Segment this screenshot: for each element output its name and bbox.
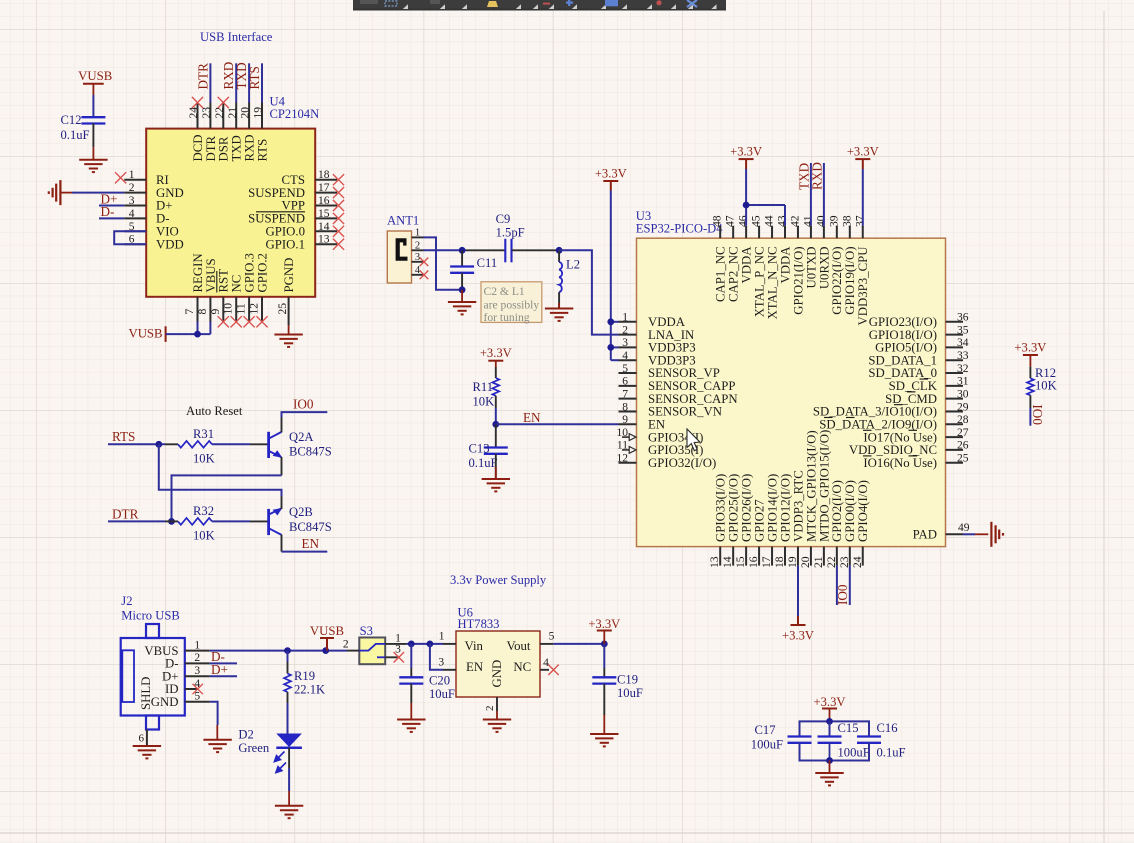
U3 top pin 42 GPIO21(I/O): [788, 215, 805, 315]
LED D2 Green: [238, 727, 302, 772]
svg-text:U0TXD: U0TXD: [804, 247, 818, 289]
junction bank bottom: [826, 757, 833, 764]
svg-text:+3.3V: +3.3V: [730, 145, 762, 159]
svg-text:GPIO14(I/O): GPIO14(I/O): [765, 474, 779, 542]
power port +3.3V at capacitor bank: [814, 695, 846, 721]
J2 pin 1 VBUS: [144, 639, 209, 657]
U3 bottom pin 20 MTCK_GPIO13(I/O): [799, 430, 818, 568]
svg-text:34: 34: [957, 337, 969, 349]
power port +3.3V above R11: [480, 346, 512, 367]
svg-text:ANT1: ANT1: [387, 214, 419, 228]
IC U3 ESP32-PICO-D4 body: [636, 209, 946, 546]
no-ERC mark U4 pin 14: [333, 226, 344, 237]
junction RTS: [155, 441, 162, 448]
U4 top pin 23 DTR: [200, 103, 218, 162]
svg-text:0.1uF: 0.1uF: [469, 456, 498, 470]
ground below J2 GND: [203, 740, 231, 752]
svg-text:C16: C16: [877, 721, 898, 735]
svg-text:CAP2_NC: CAP2_NC: [727, 247, 741, 302]
no-ERC mark U4 pin 16: [333, 200, 344, 211]
no-ERC mark U4 pin 24: [192, 97, 203, 108]
svg-text:NC: NC: [230, 275, 244, 293]
junction VUSB port: [322, 647, 329, 654]
ground below C12: [79, 160, 107, 172]
ground below C20: [397, 720, 425, 732]
svg-text:10uF: 10uF: [617, 686, 643, 700]
svg-text:3: 3: [438, 657, 444, 669]
U4 top pin 19 RTS: [252, 103, 270, 162]
svg-text:C13: C13: [469, 441, 490, 455]
U4 left pin 6 VDD: [124, 234, 183, 252]
no-ERC mark S3 pin 3: [385, 652, 404, 662]
wire junction to ground: [461, 290, 463, 302]
ground below capacitor bank: [815, 773, 843, 785]
svg-text:EN: EN: [523, 410, 541, 425]
svg-text:Auto Reset: Auto Reset: [186, 404, 243, 418]
svg-text:C12: C12: [61, 113, 82, 127]
wire S3 to U6 Vin: [407, 643, 443, 645]
transistor Q2B BC847S: [269, 496, 332, 552]
wire J2 GND pin to ground: [210, 702, 218, 725]
ground at U4 pin 2 (signal ground): [49, 180, 72, 205]
wire at U3 pin 22: [836, 566, 838, 605]
svg-text:U0RXD: U0RXD: [817, 247, 831, 290]
U3 bottom pin 16 GPIO27: [747, 499, 766, 568]
U3 bottom pin 24 GPIO4(I/O): [851, 480, 870, 568]
svg-text:47: 47: [724, 215, 737, 227]
wire C13 to ground: [495, 454, 497, 479]
U6 pin 4 NC: [540, 657, 559, 675]
svg-text:S3: S3: [360, 624, 373, 638]
svg-text:10uF: 10uF: [429, 687, 455, 701]
power port +3.3V above R12: [1014, 341, 1046, 367]
svg-text:2: 2: [343, 638, 349, 650]
svg-text:10: 10: [222, 303, 235, 315]
no-ERC mark U4 pin 22: [218, 97, 229, 108]
note box C2 & L1 are possibly for tuning: [481, 282, 542, 324]
ground below C19: [590, 734, 618, 746]
U3 right pin 27 IO17(No Use): [863, 427, 968, 444]
svg-text:VDDA: VDDA: [778, 246, 792, 284]
wire ANT1 pin 2 RF line: [424, 249, 467, 251]
svg-text:3: 3: [622, 337, 628, 349]
U3 top pin 37 VDD3P3_CPU: [853, 215, 870, 325]
U3 right pin 34 GPIO5(I/O): [875, 337, 969, 354]
svg-text:EN: EN: [302, 536, 320, 551]
svg-text:C2 & L1: C2 & L1: [484, 285, 525, 298]
U4 right pin 14 GPIO.0: [266, 221, 337, 239]
svg-text:0.1uF: 0.1uF: [877, 745, 906, 759]
svg-text:10K: 10K: [193, 452, 215, 466]
U3 top pin 45 XTAL_P_NC: [750, 215, 767, 317]
junction EN branch: [427, 641, 434, 648]
wire net D- to U4 pin 4: [99, 217, 124, 219]
svg-text:3: 3: [129, 195, 135, 207]
no-ERC mark U4 pin 18: [333, 174, 344, 185]
wire net DTR above U4: [209, 63, 211, 102]
svg-text:25: 25: [276, 303, 289, 315]
svg-text:2: 2: [129, 182, 135, 194]
svg-text:CAP1_NC: CAP1_NC: [714, 247, 728, 302]
U4 bottom pin 25 PGND: [276, 258, 296, 325]
svg-text:GPIO12(I/O): GPIO12(I/O): [778, 474, 792, 542]
U3 top pin 40 U0RXD: [814, 215, 831, 289]
U3 right pin 35 GPIO18(I/O): [869, 324, 969, 341]
svg-text:SUSPEND: SUSPEND: [248, 186, 305, 200]
svg-text:20: 20: [799, 556, 812, 568]
svg-text:J2: J2: [121, 594, 132, 608]
wire L2 to ground: [558, 292, 560, 308]
svg-text:Green: Green: [238, 741, 269, 755]
op-amp U4 CP2104N body: [146, 95, 319, 297]
svg-text:GPIO.2: GPIO.2: [255, 253, 269, 292]
svg-text:GPIO4(I/O): GPIO4(I/O): [856, 480, 870, 542]
svg-text:10K: 10K: [473, 395, 495, 409]
U4 bottom pin 11 GPIO.3: [235, 253, 257, 321]
svg-text:VPP: VPP: [282, 199, 305, 213]
svg-text:24: 24: [851, 556, 864, 568]
svg-text:12: 12: [617, 453, 629, 465]
capacitor C19 10uF: [592, 644, 643, 700]
inductor L2: [559, 250, 580, 292]
ground below U4 pin 25: [274, 335, 302, 347]
wire Q2B collector to net EN: [282, 551, 328, 553]
svg-text:GND: GND: [156, 186, 184, 200]
svg-text:+3.3V: +3.3V: [814, 695, 846, 709]
U3 right pin 26 VDD_SDIO_NC: [849, 440, 969, 457]
svg-text:5: 5: [549, 631, 555, 643]
U3 left pin 7 SENSOR_CAPN: [619, 388, 738, 405]
svg-text:4: 4: [543, 657, 549, 669]
svg-text:45: 45: [750, 215, 763, 227]
svg-text:IO0: IO0: [1030, 404, 1045, 425]
svg-text:42: 42: [788, 215, 801, 227]
svg-text:24: 24: [187, 107, 200, 119]
wire +3.3V to U3 pin 37: [862, 169, 864, 226]
svg-text:2: 2: [484, 706, 496, 712]
svg-text:2: 2: [622, 324, 628, 336]
svg-text:VDDA: VDDA: [740, 246, 754, 284]
power port +3.3V at U6 output: [588, 617, 620, 646]
junction EN node: [492, 421, 499, 428]
capacitor C16 0.1uF: [857, 721, 906, 759]
wire ANT1 pin 1 to ground junction: [424, 237, 463, 289]
wire R11 to EN junction: [495, 408, 497, 424]
svg-text:REGIN: REGIN: [191, 253, 205, 292]
svg-text:21: 21: [812, 556, 825, 568]
junction C11 top: [459, 247, 466, 254]
U4 left pin 1 RI: [124, 169, 168, 187]
svg-text:RXD: RXD: [243, 134, 257, 161]
U4 bottom pin 9 RST: [209, 269, 231, 322]
wire Q2A collector to net IO0: [282, 412, 328, 417]
capacitor C12 0.1uF: [61, 113, 106, 142]
svg-text:16: 16: [318, 195, 330, 207]
svg-text:VUSB: VUSB: [78, 69, 112, 83]
svg-text:RTS: RTS: [112, 429, 135, 444]
ground at PAD (signal ground): [991, 522, 1003, 547]
svg-text:22: 22: [825, 556, 838, 568]
svg-text:VDD: VDD: [156, 237, 184, 251]
svg-text:C19: C19: [617, 673, 638, 687]
U3 bottom pin 14 GPIO25(I/O): [721, 474, 740, 568]
wire Q2A emitter to DTR junction: [172, 475, 282, 521]
svg-text:1: 1: [129, 169, 135, 181]
svg-text:100uF: 100uF: [751, 738, 783, 752]
J2 pin 4 ID: [165, 678, 200, 696]
J2 pin 5 GND: [151, 691, 210, 709]
svg-text:10K: 10K: [193, 529, 215, 543]
U3 left pin 11 GPIO35(I): [617, 440, 704, 457]
antenna connector ANT1: [387, 214, 419, 284]
capacitor C20 10uF: [399, 644, 455, 701]
svg-text:31: 31: [957, 376, 969, 388]
svg-text:1: 1: [439, 631, 445, 643]
svg-text:DTR: DTR: [112, 506, 139, 521]
svg-text:Vin: Vin: [465, 639, 484, 653]
wire net RXD at U3 pin 40: [823, 163, 825, 226]
ground below U6: [483, 720, 511, 732]
svg-text:XTAL_P_NC: XTAL_P_NC: [752, 247, 766, 318]
U6 pin 1 Vin: [439, 631, 456, 644]
svg-text:Vout: Vout: [507, 639, 531, 653]
resistor R31 10K: [165, 427, 269, 466]
U4 bottom pin 8 VBUS: [196, 258, 218, 321]
svg-text:39: 39: [827, 215, 840, 227]
svg-text:14: 14: [721, 556, 734, 568]
ground below C11: [448, 302, 476, 314]
svg-text:5: 5: [194, 691, 200, 703]
power port VUSB at supply: [310, 624, 344, 650]
capacitor C13 0.1uF: [469, 424, 508, 470]
U3 left pin 1 VDDA: [619, 312, 686, 329]
svg-text:DTR: DTR: [204, 135, 218, 161]
svg-text:GPIO19(I/O): GPIO19(I/O): [843, 247, 857, 315]
U4 bottom pin 12 GPIO.2: [248, 253, 270, 321]
svg-text:GPIO0(I/O): GPIO0(I/O): [843, 480, 857, 542]
U4 top pin 20 RXD: [239, 103, 257, 162]
wire capacitor bank top rail: [800, 721, 870, 736]
svg-text:43: 43: [776, 215, 789, 227]
svg-text:BC847S: BC847S: [289, 520, 332, 534]
U3 left pin 4 VDD3P3: [619, 350, 696, 367]
svg-text:NC: NC: [513, 660, 531, 674]
U4 left pin 4 D-: [124, 208, 169, 226]
junction bank top: [826, 718, 833, 725]
ground below D2: [275, 806, 303, 818]
resistor R11 10K: [473, 367, 500, 409]
svg-text:GPIO.1: GPIO.1: [266, 237, 305, 251]
U3 top pin 48 CAP1_NC: [711, 215, 728, 302]
no-ERC mark U4 bottom pin: [256, 316, 267, 327]
no-ERC mark U4 bottom pin: [218, 316, 229, 327]
svg-text:IO0: IO0: [293, 397, 314, 412]
svg-text:GND: GND: [151, 695, 179, 709]
svg-text:27: 27: [957, 427, 969, 439]
svg-text:29: 29: [957, 401, 969, 413]
svg-text:8: 8: [622, 401, 628, 413]
ANT1 pin 3: [412, 252, 424, 263]
wire net TXD above U4: [248, 63, 250, 102]
power port +3.3V above U3 pin 37: [847, 145, 879, 169]
svg-text:USB Interface: USB Interface: [200, 30, 273, 44]
U4 top pin 21 TXD: [226, 103, 244, 162]
svg-text:L2: L2: [566, 257, 580, 271]
svg-text:Q2A: Q2A: [289, 430, 314, 444]
U3 top pin 43 VDDA: [776, 215, 793, 283]
U3 right pin 28 SD_DATA_2/IO9(I/O): [819, 414, 968, 431]
U4 right pin 18 CTS: [282, 169, 337, 187]
svg-text:7: 7: [622, 388, 628, 400]
svg-text:16: 16: [747, 556, 760, 568]
svg-text:VBUS: VBUS: [204, 258, 218, 292]
svg-text:GPIO.0: GPIO.0: [266, 225, 305, 239]
U3 top pin 44 XTAL_N_NC: [763, 215, 780, 319]
capacitor C15 100uF: [818, 721, 870, 759]
svg-text:GPIO26(I/O): GPIO26(I/O): [740, 474, 754, 542]
U3 bottom pin 22 GPIO2(I/O): [825, 480, 844, 568]
power port VUSB (top left): [78, 69, 112, 95]
U4 right pin 15 SUSPEND: [248, 208, 337, 226]
svg-text:1: 1: [415, 228, 420, 239]
wire C19 to ground: [603, 684, 605, 715]
svg-text:5: 5: [622, 363, 628, 375]
svg-text:9: 9: [622, 414, 628, 426]
wire RTS junction to Q2B emitter: [159, 444, 282, 496]
svg-text:17: 17: [760, 556, 773, 568]
svg-text:18: 18: [773, 556, 786, 568]
power port +3.3V above U3 pin 46: [730, 145, 762, 169]
junction above U3 pin 46: [743, 202, 750, 209]
svg-text:17: 17: [318, 182, 330, 194]
wire net TXD at U3 pin 41: [810, 163, 812, 226]
wire net IO0 at U3 pin 23: [849, 566, 851, 605]
svg-text:+3.3V: +3.3V: [847, 145, 879, 159]
wire bank to ground: [829, 761, 831, 774]
no-ERC mark U4 bottom pin: [231, 316, 242, 327]
svg-text:VIO: VIO: [156, 225, 179, 239]
U3 bottom pin 18 GPIO12(I/O): [773, 474, 792, 568]
svg-text:RXD: RXD: [809, 162, 824, 190]
no-ERC mark U4 bottom pin: [244, 316, 255, 327]
svg-text:GPIO27: GPIO27: [752, 499, 766, 542]
wire +3.3V to U3 pins 46 and 43: [746, 169, 785, 226]
svg-text:HT7833: HT7833: [458, 617, 500, 631]
svg-text:7: 7: [183, 309, 196, 315]
wire U6 GND to ground: [496, 711, 498, 720]
svg-text:1: 1: [622, 312, 628, 324]
U4 bottom pin 7 REGIN: [183, 253, 205, 321]
svg-text:DTR: DTR: [195, 63, 210, 90]
wire net RXD above U4: [235, 63, 237, 102]
svg-text:GPIO2(I/O): GPIO2(I/O): [830, 480, 844, 542]
junction U3 pin 3: [607, 344, 614, 351]
svg-text:GPIO22(I/O): GPIO22(I/O): [830, 247, 844, 315]
svg-text:1: 1: [395, 632, 401, 644]
svg-text:Micro USB: Micro USB: [121, 609, 179, 623]
svg-text:VUSB: VUSB: [310, 624, 344, 638]
svg-text:R19: R19: [294, 669, 315, 683]
svg-text:26: 26: [957, 440, 969, 452]
svg-text:33: 33: [957, 350, 969, 362]
svg-text:19: 19: [252, 107, 265, 119]
svg-text:C9: C9: [496, 212, 511, 226]
U3 left pin 3 VDD3P3: [619, 337, 696, 354]
switch S3: [343, 624, 401, 664]
svg-text:4: 4: [622, 350, 628, 362]
svg-text:DSR: DSR: [217, 136, 231, 161]
svg-text:D2: D2: [238, 727, 253, 741]
junction R19 tap: [284, 647, 291, 654]
svg-text:Q2B: Q2B: [289, 505, 313, 519]
U3 top pin 41 U0TXD: [801, 215, 818, 288]
svg-text:11: 11: [617, 440, 628, 452]
svg-text:6: 6: [622, 376, 628, 388]
wire C11 to ground junction: [461, 273, 463, 290]
svg-text:D-: D-: [101, 204, 115, 219]
power port VUSB at U4 pins 7,8: [128, 326, 165, 342]
wire net D+ at J2 pin 3: [210, 675, 237, 677]
svg-text:D+: D+: [156, 199, 172, 213]
J2 pin 3 D+: [162, 665, 210, 683]
svg-text:PAD: PAD: [913, 528, 937, 542]
svg-text:GPIO21(I/O): GPIO21(I/O): [791, 247, 805, 315]
svg-text:+3.3V: +3.3V: [782, 629, 814, 643]
S3 pin 1 stub: [385, 643, 406, 645]
regulator U6 HT7833 body: [456, 605, 540, 697]
wire D2 to ground: [288, 748, 290, 768]
svg-text:are possibly: are possibly: [484, 299, 540, 312]
svg-text:RI: RI: [156, 173, 169, 187]
svg-text:0.1uF: 0.1uF: [61, 128, 90, 142]
svg-text:38: 38: [840, 215, 853, 227]
ANT1 pin 2: [412, 241, 424, 252]
svg-text:C17: C17: [755, 723, 776, 737]
U3 left pin 12 GPIO32(I/O): [617, 453, 717, 470]
U3 top pin 47 CAP2_NC: [724, 215, 741, 302]
junction U3 pin 1: [607, 318, 614, 325]
ANT1 pin 4: [412, 265, 424, 276]
capacitor C17 100uF: [751, 723, 812, 752]
svg-text:21: 21: [226, 107, 239, 119]
svg-text:1.5pF: 1.5pF: [496, 225, 525, 239]
U3 right pin 33 SD_DATA_1: [868, 350, 968, 367]
svg-text:D-: D-: [156, 212, 170, 226]
resistor R32 10K: [165, 504, 269, 543]
U4 right pin 17 SUSPEND: [248, 182, 337, 200]
svg-text:VDDP3_RTC: VDDP3_RTC: [791, 470, 805, 542]
mouse cursor: [687, 429, 700, 451]
U3 bottom pin 15 GPIO26(I/O): [734, 474, 753, 568]
connector J2 Micro USB body: [121, 594, 185, 730]
power port +3.3V below U3 pin 19: [782, 616, 814, 643]
junction L2 top: [556, 247, 563, 254]
U4 top pin 24 DCD: [187, 103, 205, 162]
svg-text:14: 14: [318, 221, 330, 233]
ANT1 pin 1: [412, 228, 424, 239]
wire net RTS to R31: [108, 443, 165, 445]
U4 left pin 3 D+: [124, 195, 172, 213]
svg-text:CTS: CTS: [282, 173, 305, 187]
svg-text:GPIO33(I/O): GPIO33(I/O): [714, 474, 728, 542]
no-ERC mark U4 pin 17: [333, 187, 344, 198]
J2 pin 6 shield: [139, 730, 147, 747]
U4 left pin 5 VIO: [124, 221, 178, 239]
svg-text:C11: C11: [477, 256, 498, 270]
U3 right pin 36 GPIO23(I/O): [869, 312, 969, 329]
svg-text:SUSPEND: SUSPEND: [248, 212, 305, 226]
U3 bottom pin 13 GPIO33(I/O): [708, 474, 727, 568]
